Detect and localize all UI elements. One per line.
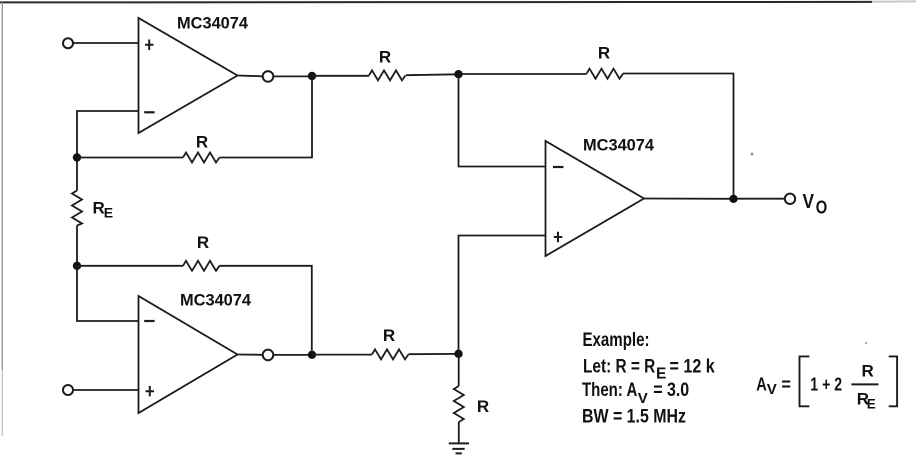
wire U2 feedback resistor to node F: [220, 266, 312, 351]
wire U3 feedback resistor to node D: [623, 74, 734, 195]
svg-text:=: =: [781, 374, 791, 394]
wire node E to U2 feedback resistor: [77, 265, 183, 267]
resistor RE: [72, 191, 82, 226]
svg-text:R: R: [862, 361, 874, 380]
node E junction (RE bottom, U2 inverting): [73, 262, 81, 270]
input terminal IN1: [63, 38, 73, 48]
node F (U2 output junction): [308, 351, 316, 359]
wire node D to output terminal: [738, 198, 785, 200]
label VO: [803, 191, 828, 218]
svg-text:E: E: [104, 205, 113, 221]
wire node A to feedback resistor: [77, 157, 183, 159]
wire node B to resistor R top middle: [312, 75, 369, 77]
ground: [449, 443, 469, 453]
svg-text:R: R: [197, 233, 209, 252]
wire U1 output circle to node B: [273, 75, 312, 77]
resistor R (U1 feedback): [183, 153, 220, 163]
resistor R (top middle): [369, 70, 406, 80]
wire RE to node E: [76, 226, 78, 266]
wire node G up to U3 noninverting input: [459, 236, 546, 354]
svg-text:R: R: [598, 44, 610, 63]
U1 noninverting input marker +: [145, 40, 154, 51]
svg-text:= 3.0: = 3.0: [653, 380, 689, 401]
U1 inverting input marker -: [144, 111, 154, 113]
op-amp U2: [139, 296, 238, 413]
U2 noninverting input marker +: [146, 386, 155, 397]
wire node G down to ground resistor: [458, 354, 460, 386]
svg-text:MC34074: MC34074: [180, 291, 252, 310]
svg-text:MC34074: MC34074: [177, 14, 249, 33]
svg-text:R: R: [379, 48, 391, 67]
wire node C to U3 feedback resistor: [459, 73, 587, 75]
wire node A to resistor RE: [76, 162, 78, 191]
svg-text:Then: A: Then: A: [582, 380, 638, 401]
U3 inverting input marker -: [553, 166, 564, 168]
U2 output terminal circle: [263, 350, 274, 361]
svg-text:V: V: [803, 191, 815, 213]
svg-text:R: R: [196, 133, 208, 152]
svg-text:E: E: [867, 397, 876, 412]
wire node C down to U3 inverting input: [459, 74, 546, 166]
svg-text:Example:: Example:: [583, 330, 650, 351]
svg-text:= 12 k: = 12 k: [670, 356, 716, 377]
svg-text:O: O: [816, 198, 828, 218]
resistor R (U2 feedback): [183, 261, 220, 271]
svg-text:Let: R = R: Let: R = R: [583, 356, 655, 377]
op-amp U1: [139, 18, 238, 133]
node B (U1 output junction): [308, 72, 316, 80]
wire resistor to node C: [406, 73, 459, 76]
annotation: Let: R = RE = 12 k: [583, 356, 715, 382]
resistor R (ground leg): [454, 386, 464, 422]
svg-text:V: V: [767, 381, 777, 398]
wire ground resistor to ground: [458, 422, 460, 443]
wire U1 feedback resistor to node B: [220, 80, 313, 158]
wire U3 output: [644, 198, 734, 200]
svg-text:R: R: [477, 397, 489, 416]
U3 noninverting input marker +: [554, 232, 563, 243]
wire bottom resistor to node G: [409, 353, 459, 355]
svg-text:V: V: [638, 390, 648, 407]
node D (U3 output junction): [729, 195, 737, 203]
node A junction: [73, 153, 81, 161]
node C (U3 inverting net junction): [454, 70, 462, 78]
wire U2 output circle to node F: [273, 354, 312, 356]
wire U1 output: [238, 75, 263, 78]
wire U1 inverting input to node A: [77, 111, 139, 158]
wire IN2 to U2 noninverting input: [73, 389, 138, 391]
input terminal IN2: [63, 385, 73, 395]
op-amp U3: [546, 141, 645, 256]
value label RE: [93, 199, 114, 221]
wire U2 inverting input to node E: [77, 266, 139, 321]
svg-text:A: A: [756, 374, 767, 394]
formula AV = [1 + 2 R/RE]: [756, 356, 897, 411]
U1 output terminal circle: [263, 71, 274, 82]
wire IN1 to U1 noninverting input: [73, 42, 138, 44]
wire node F to bottom resistor: [312, 354, 372, 356]
output terminal VO: [785, 194, 795, 204]
svg-text:MC34074: MC34074: [583, 136, 655, 155]
node G (U3 noninverting net junction): [454, 350, 462, 358]
svg-text:R: R: [383, 326, 395, 345]
resistor R (U3 feedback): [587, 69, 624, 79]
resistor R (bottom): [372, 349, 409, 359]
U2 inverting input marker -: [144, 320, 154, 322]
svg-text:BW = 1.5 MHz: BW = 1.5 MHz: [582, 406, 686, 427]
svg-text:1 + 2: 1 + 2: [810, 374, 842, 394]
wire U2 output: [238, 354, 263, 356]
annotation: Then: AV = 3.0: [582, 380, 689, 407]
